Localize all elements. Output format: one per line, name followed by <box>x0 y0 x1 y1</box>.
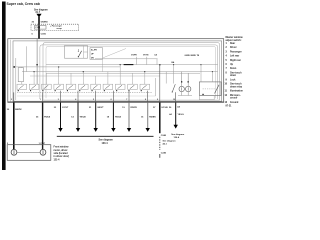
svg-text:adjust switch:: adjust switch: <box>226 39 242 42</box>
svg-text:6: 6 <box>111 99 112 101</box>
svg-text:1 C507: 1 C507 <box>39 143 46 145</box>
svg-text:See diagram: See diagram <box>163 141 176 143</box>
svg-text:GY/PK: GY/PK <box>131 55 138 57</box>
legend items <box>225 43 244 108</box>
svg-text:C240: C240 <box>161 134 167 137</box>
svg-text:100-4: 100-4 <box>102 142 109 145</box>
svg-text:121-4: 121-4 <box>54 158 61 161</box>
svg-text:7: 7 <box>126 99 127 101</box>
svg-text:Ground: Ground <box>230 102 239 104</box>
illumination bulb 2 <box>186 86 191 91</box>
svg-text:cessor: cessor <box>230 98 238 100</box>
svg-text:GN/RD: GN/RD <box>41 21 48 23</box>
svg-text:9: 9 <box>157 99 158 101</box>
scan border strip <box>2 2 6 171</box>
svg-text:42-1: 42-1 <box>163 143 168 146</box>
svg-text:5: 5 <box>93 99 94 101</box>
arrow wire 1 <box>60 103 62 129</box>
svg-text:One-touch: One-touch <box>230 83 242 86</box>
svg-text:down: down <box>230 75 237 77</box>
svg-text:side (located: side (located <box>54 152 69 155</box>
wire labels row B <box>71 113 184 118</box>
svg-text:BN/W: BN/W <box>191 55 196 57</box>
lock switch sub-box top left <box>65 46 88 59</box>
bus line C <box>22 71 218 73</box>
svg-text:See diagram: See diagram <box>171 134 184 136</box>
svg-text:GY/LB: GY/LB <box>161 107 168 109</box>
bus line E <box>30 75 160 77</box>
label stubs <box>136 57 138 65</box>
off-page connector triangle <box>36 14 41 18</box>
svg-text:TN/LB: TN/LB <box>44 117 51 119</box>
bus line A <box>46 64 218 66</box>
arrow wire 6 gray <box>147 103 149 129</box>
svg-text:YE/LB: YE/LB <box>115 117 122 119</box>
svg-text:BN/PK: BN/PK <box>15 109 22 111</box>
master window switch outer box R1 <box>8 39 224 103</box>
connector C337 dashed box <box>31 24 79 30</box>
motor wire left <box>13 103 15 150</box>
svg-text:motor, driver: motor, driver <box>54 149 68 152</box>
svg-text:TN/LB: TN/LB <box>80 117 87 119</box>
motor wire right <box>42 103 44 150</box>
svg-text:comp.: comp. <box>57 28 63 30</box>
box bottom band accent <box>8 101 224 103</box>
svg-text:One-touch: One-touch <box>230 71 242 74</box>
bulb ground drops <box>181 92 183 96</box>
svg-text:Super cab, Crew cab: Super cab, Crew cab <box>7 2 40 6</box>
svg-text:down relay: down relay <box>230 86 243 88</box>
svg-text:Left rear: Left rear <box>230 55 239 58</box>
contact bottom junction dots <box>18 90 142 91</box>
internal drops to box bottom <box>14 65 176 103</box>
motor caption block <box>54 146 70 162</box>
arrow wire 3 <box>95 103 97 129</box>
see diagram 31-7 note <box>34 9 48 14</box>
right zone switch blade <box>172 84 175 92</box>
wire to diagram 130-4 <box>175 103 177 126</box>
dashed interconnect band <box>17 91 152 93</box>
C240 wire <box>159 103 161 134</box>
pin numbers at box bottom <box>11 98 175 101</box>
svg-text:YE/LG: YE/LG <box>178 114 185 116</box>
svg-text:LB: LB <box>177 106 180 108</box>
svg-text:Lock: Lock <box>230 79 236 81</box>
contact feed stubs to buses <box>22 65 145 82</box>
pin color labels row mid <box>131 55 200 64</box>
svg-text:in driver door): in driver door) <box>54 156 70 158</box>
svg-text:4: 4 <box>75 98 76 101</box>
svg-text:97-21: 97-21 <box>226 106 233 108</box>
wire labels row A <box>54 106 181 109</box>
svg-text:Micropro-: Micropro- <box>230 95 241 97</box>
bus line B with left junction <box>13 66 120 68</box>
window lock sub-box right <box>199 82 221 96</box>
svg-text:1: 1 <box>40 99 41 101</box>
arrow wire 5 gray <box>128 103 130 129</box>
svg-text:GY/VT: GY/VT <box>62 107 69 109</box>
feed wire continuation inside box <box>36 39 38 84</box>
arrow wire 4 <box>112 103 114 129</box>
svg-text:RD/PK: RD/PK <box>131 107 138 109</box>
svg-text:ILL/PK: ILL/PK <box>91 50 98 52</box>
contact row right enclosure edge <box>155 78 157 96</box>
svg-text:C306: C306 <box>41 33 47 35</box>
svg-text:Driver: Driver <box>230 47 237 49</box>
nested box R2 <box>13 41 222 101</box>
nested box R3 left segment <box>15 58 17 100</box>
svg-text:2: 2 <box>11 99 12 101</box>
switch blade in sub-box <box>78 51 81 57</box>
header line under labels <box>95 58 158 60</box>
destination bracket line <box>57 135 154 137</box>
nested box R3 <box>43 43 220 101</box>
svg-text:Rear: Rear <box>230 43 235 45</box>
internal vertical x26 <box>25 46 27 71</box>
svg-text:RD/BK: RD/BK <box>149 117 156 119</box>
switch contact row (11 units) <box>17 82 150 90</box>
fuse F2.27 inside dashed box <box>35 26 47 30</box>
svg-text:VT/YE: VT/YE <box>143 55 149 57</box>
left resistor tall rect <box>18 68 23 82</box>
svg-text:Passenger: Passenger <box>230 51 242 53</box>
nested box R2b left line <box>9 40 11 102</box>
dark bus segment <box>124 64 134 66</box>
svg-text:GN/W: GN/W <box>185 55 190 57</box>
diagonal blade from block <box>103 49 126 58</box>
motor M1 driver <box>11 149 17 155</box>
svg-text:Down: Down <box>230 68 237 70</box>
power feed wire from triangle <box>38 17 40 39</box>
motor link wire <box>17 151 40 153</box>
nested box R4 <box>40 45 218 99</box>
svg-text:Front window: Front window <box>54 146 69 149</box>
svg-text:3: 3 <box>58 99 59 101</box>
svg-text:Illumination: Illumination <box>230 90 243 93</box>
svg-text:8: 8 <box>145 99 146 101</box>
svg-text:10: 10 <box>173 99 175 101</box>
svg-text:Right rear: Right rear <box>230 59 241 62</box>
svg-text:130-4: 130-4 <box>174 136 180 139</box>
svg-text:GN/VT: GN/VT <box>97 107 104 109</box>
bus junction dots <box>34 64 214 72</box>
svg-text:C240: C240 <box>161 152 167 155</box>
nested box R5 top line <box>46 46 216 98</box>
ILL UP DN block <box>90 48 103 60</box>
arrow wire 2 <box>77 103 79 129</box>
motor M2 <box>40 149 46 155</box>
bus line D <box>46 72 200 74</box>
illumination bulb 1 <box>179 86 184 91</box>
window motor box <box>7 145 51 161</box>
